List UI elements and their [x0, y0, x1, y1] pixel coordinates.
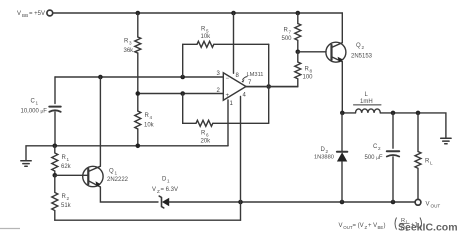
svg-text:1: 1 [115, 171, 118, 176]
wire R6 line [183, 94, 196, 124]
svg-text:10k: 10k [144, 123, 155, 129]
terminal VBB [47, 10, 53, 16]
resistor R5 [197, 41, 214, 47]
diode D2 [337, 113, 347, 202]
op-amp U1 LM311 [223, 73, 246, 100]
svg-text:20k: 20k [201, 139, 212, 145]
svg-text:= 6.3V: = 6.3V [161, 187, 179, 193]
wire R56 right vertical [268, 44, 270, 123]
svg-text:2: 2 [326, 149, 329, 154]
wire pin7 output [246, 86, 298, 88]
inductor L [356, 109, 381, 113]
capacitor C1 [49, 106, 60, 108]
svg-text:3: 3 [129, 41, 132, 46]
resistor R1 [52, 146, 58, 176]
svg-text:+ V: + V [368, 223, 377, 229]
node L-C2 [391, 111, 396, 116]
svg-text:Q: Q [356, 43, 361, 49]
svg-text:V: V [339, 223, 343, 229]
wire R2 bottom bus [55, 219, 241, 221]
node out-R56 [266, 84, 271, 89]
svg-text:1mH: 1mH [360, 99, 373, 105]
wire Q2 base [298, 51, 326, 53]
wire pin1 [227, 100, 229, 146]
wire Q1 emitter down [100, 187, 158, 202]
capacitor C2 [387, 113, 399, 202]
node pin3-Q1collector [98, 75, 103, 80]
svg-text:51k: 51k [61, 203, 72, 209]
diode D1 zener [159, 196, 240, 208]
node vout-D2 [340, 200, 345, 205]
svg-text:2: 2 [362, 45, 365, 50]
wire Vout bus [241, 201, 416, 203]
wire Q2 collector [341, 13, 343, 43]
wire Q2 emitter [341, 62, 343, 113]
svg-text:V: V [426, 202, 430, 208]
svg-text:= (V: = (V [353, 223, 364, 229]
wire pin3 line [55, 76, 223, 78]
resistor R8 [295, 52, 301, 87]
wire R5 box left [182, 44, 184, 77]
node vout-C2 [391, 200, 396, 205]
svg-text:6: 6 [206, 133, 209, 138]
svg-text:LM311: LM311 [247, 72, 264, 78]
node rail-R3 [136, 11, 141, 16]
svg-text:= +5V: = +5V [29, 11, 45, 17]
wire Q1 collector up [99, 77, 101, 166]
node pin2-R6 [180, 91, 185, 96]
svg-text:L: L [430, 161, 433, 166]
wire C1 branch [54, 77, 56, 146]
node bus-R4 [136, 144, 141, 149]
svg-text:2: 2 [67, 196, 70, 201]
svg-text:2N5153: 2N5153 [351, 54, 373, 60]
wire ground stub left [26, 146, 55, 160]
wire R4 bottom lead [137, 129, 139, 146]
resistor RL [415, 113, 421, 199]
wire ground bus [55, 145, 228, 147]
svg-text:OUT: OUT [343, 225, 353, 230]
node rail-R7 [296, 11, 301, 16]
svg-text:4: 4 [150, 115, 153, 120]
node vout-pin4 [238, 200, 243, 205]
svg-text:500 µF: 500 µF [365, 155, 383, 161]
resistor R2 [52, 175, 58, 220]
wire R5 to right [214, 43, 269, 45]
svg-text:Q: Q [109, 169, 114, 175]
formula Vout equation [339, 218, 422, 233]
node rail-pin8 [231, 11, 236, 16]
svg-text:1: 1 [36, 101, 39, 106]
ground right [441, 138, 451, 144]
node L-RL [416, 111, 421, 116]
resistor R4 [135, 111, 141, 129]
svg-text:1: 1 [167, 179, 170, 184]
svg-text:OUT: OUT [431, 204, 441, 209]
svg-text:1N3880: 1N3880 [314, 155, 334, 161]
svg-text:100: 100 [303, 75, 314, 81]
terminal Vout [415, 199, 421, 205]
svg-text:): ) [384, 223, 386, 229]
svg-text:+: + [226, 93, 230, 99]
ground left [21, 161, 31, 167]
svg-text:8: 8 [310, 69, 313, 74]
svg-text:10,000 µF: 10,000 µF [21, 109, 48, 115]
svg-text:10k: 10k [201, 34, 212, 40]
svg-text:1: 1 [67, 157, 70, 162]
wire R6 to right [213, 122, 269, 124]
resistor R3 [135, 37, 141, 53]
wire R8 to output [246, 86, 298, 88]
wire pin4 [240, 97, 242, 221]
svg-text:V: V [17, 11, 21, 17]
svg-text:7: 7 [289, 30, 292, 35]
svg-text:−: − [226, 76, 230, 82]
wire L line [342, 112, 355, 114]
transistor Q1 [83, 166, 103, 187]
node bus-R1 [53, 144, 58, 149]
resistor R6 [196, 120, 213, 126]
node L-Q2 [340, 111, 345, 116]
resistor R7 [295, 13, 301, 52]
svg-text:5: 5 [206, 29, 209, 34]
svg-text:SeekIC.com: SeekIC.com [398, 222, 458, 234]
wire R5 top line [183, 43, 197, 45]
wire R3 branch top lead [137, 13, 139, 37]
label LM311 [242, 72, 264, 83]
wire pin8 [233, 13, 235, 73]
svg-text:V: V [152, 187, 156, 193]
svg-text:500: 500 [282, 36, 293, 42]
wire pin2 line [138, 93, 224, 95]
node pin2-R3R4 [136, 91, 141, 96]
label VBB [17, 11, 45, 18]
svg-text:36k: 36k [124, 48, 135, 54]
wire R3-R4 mid lead [137, 53, 139, 111]
node R7-R8-base [296, 50, 301, 55]
node pin3-R5 [180, 75, 185, 80]
svg-text:62k: 62k [61, 164, 72, 170]
wire top rail [53, 12, 343, 14]
svg-text:BB: BB [22, 13, 28, 18]
svg-text:2N2222: 2N2222 [107, 177, 129, 183]
transistor Q2 [326, 42, 346, 62]
node R1-R2-base [53, 173, 58, 178]
wire Q1 base [55, 174, 89, 176]
scan artifact bottom left [0, 228, 20, 230]
svg-text:2: 2 [378, 146, 381, 151]
wire L to right [380, 113, 446, 138]
